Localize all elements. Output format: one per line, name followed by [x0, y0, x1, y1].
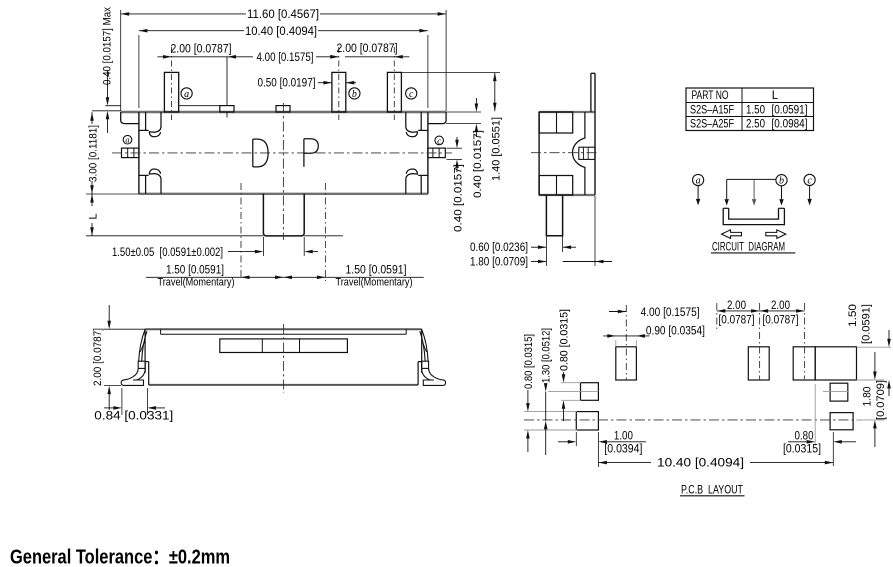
svg-text:1.40 [0.0551]: 1.40 [0.0551]	[490, 117, 502, 181]
svg-text:c: c	[409, 89, 414, 100]
svg-text:[0.0394]: [0.0394]	[604, 444, 642, 456]
svg-text:2.50: 2.50	[746, 119, 765, 131]
svg-text:[0.0709]: [0.0709]	[875, 380, 887, 420]
svg-text:[0.0984]: [0.0984]	[772, 119, 808, 131]
svg-text:4.00 [0.1575]: 4.00 [0.1575]	[641, 307, 700, 319]
svg-text:CIRCUIT DIAGRAM: CIRCUIT DIAGRAM	[712, 242, 785, 254]
svg-text:Travel(Momentary): Travel(Momentary)	[158, 276, 235, 288]
svg-text:1.30 [0.0512]: 1.30 [0.0512]	[541, 328, 553, 383]
svg-text:2.00 [0.0787]: 2.00 [0.0787]	[92, 328, 104, 386]
svg-text:3.00 [0.1181]: 3.00 [0.1181]	[87, 125, 99, 182]
svg-text:4.00 [0.1575]: 4.00 [0.1575]	[257, 52, 314, 64]
svg-text:1.50 [0.0591]: 1.50 [0.0591]	[166, 264, 224, 276]
svg-text:c: c	[807, 175, 812, 186]
svg-text:[0.0787]: [0.0787]	[719, 314, 755, 326]
svg-text:[0.0315]: [0.0315]	[783, 444, 821, 456]
svg-text:L: L	[772, 90, 779, 102]
svg-text:Travel(Momentary): Travel(Momentary)	[336, 276, 413, 288]
svg-text:a: a	[125, 135, 129, 145]
svg-text:0.40 [0.0157]: 0.40 [0.0157]	[472, 130, 484, 198]
svg-text:a: a	[696, 175, 701, 186]
svg-text:P.C.B LAYOUT: P.C.B LAYOUT	[681, 484, 743, 496]
svg-text:0.84 [0.0331]: 0.84 [0.0331]	[94, 410, 173, 422]
svg-text:0.80: 0.80	[795, 431, 814, 443]
svg-text:2.00: 2.00	[771, 300, 790, 312]
svg-text:L: L	[87, 213, 99, 219]
svg-text:1.50: 1.50	[847, 304, 859, 327]
svg-text:0.40 [0.0157] Max: 0.40 [0.0157] Max	[102, 7, 114, 85]
svg-text:1.80 [0.0709]: 1.80 [0.0709]	[470, 257, 528, 269]
svg-text:10.40 [0.4094]: 10.40 [0.4094]	[657, 457, 744, 469]
svg-text:1.50±0.05 [0.0591±0.002]: 1.50±0.05 [0.0591±0.002]	[112, 247, 223, 259]
svg-text:2.00 [0.0787]: 2.00 [0.0787]	[171, 43, 232, 55]
svg-text:c: c	[437, 135, 441, 145]
svg-text:0.80 [0.0315]: 0.80 [0.0315]	[523, 334, 535, 389]
svg-text:[0.0787]: [0.0787]	[763, 314, 799, 326]
svg-text:0.60 [0.0236]: 0.60 [0.0236]	[470, 242, 528, 254]
svg-text:11.60 [0.4567]: 11.60 [0.4567]	[247, 9, 319, 21]
svg-text:a: a	[184, 89, 189, 100]
svg-text:0.40 [0.0157]: 0.40 [0.0157]	[452, 164, 464, 232]
svg-text:0.80 [0.0315]: 0.80 [0.0315]	[559, 309, 571, 371]
svg-text:[0.0591]: [0.0591]	[860, 304, 872, 344]
svg-text:1.80: 1.80	[862, 387, 874, 407]
svg-text:10.40 [0.4094]: 10.40 [0.4094]	[245, 26, 317, 38]
svg-text:[0.0591]: [0.0591]	[772, 105, 808, 117]
svg-text:2.00 [0.0787]: 2.00 [0.0787]	[337, 43, 398, 55]
svg-text:1.50 [0.0591]: 1.50 [0.0591]	[346, 264, 407, 276]
svg-text:0.90 [0.0354]: 0.90 [0.0354]	[646, 325, 705, 337]
svg-text:2.00: 2.00	[727, 300, 746, 312]
svg-text:b: b	[352, 89, 357, 100]
svg-text:PART NO: PART NO	[692, 90, 729, 102]
svg-text:1.00: 1.00	[614, 431, 633, 443]
svg-text:1.50: 1.50	[746, 105, 765, 117]
svg-text:S2S–A15F: S2S–A15F	[690, 105, 734, 117]
svg-text:S2S–A25F: S2S–A25F	[690, 119, 734, 131]
svg-text:b: b	[779, 176, 784, 187]
svg-text:0.50 [0.0197]: 0.50 [0.0197]	[258, 78, 316, 90]
svg-text:General Tolerance：±0.2mm: General Tolerance：±0.2mm	[10, 547, 230, 567]
